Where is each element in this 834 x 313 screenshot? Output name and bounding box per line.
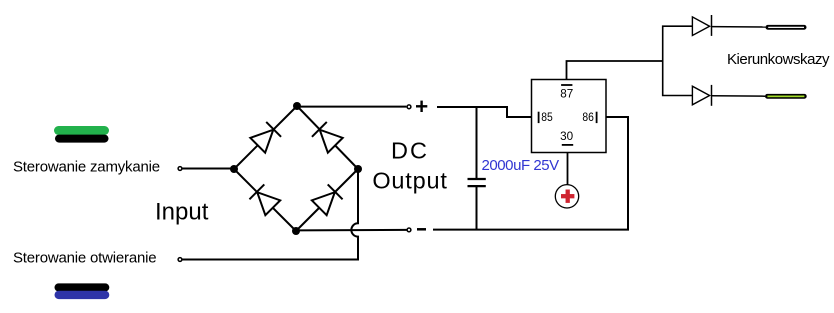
minus sign label <box>417 228 426 231</box>
svg-text:87: 87 <box>560 89 573 101</box>
connector bar black (closing pair) <box>55 135 109 143</box>
diode D3 (bridge bottom-left, pointing to left node) <box>249 184 280 215</box>
wire bottom node to minus terminal <box>296 229 407 232</box>
lamp connector bottom (yellow-green stripe) <box>765 94 807 99</box>
wire top node to plus terminal <box>297 106 406 108</box>
svg-text:30: 30 <box>560 131 573 143</box>
relay pin 30 mark <box>562 144 573 146</box>
plus sign label <box>416 101 427 112</box>
node top (junction dot) <box>293 102 301 110</box>
svg-text:Kierunkowskazy: Kierunkowskazy <box>727 51 830 68</box>
svg-text:Sterowanie zamykanie: Sterowanie zamykanie <box>13 159 160 176</box>
capacitor C1 plates <box>468 178 486 180</box>
terminal circle zamykanie <box>178 167 182 171</box>
svg-text:85: 85 <box>541 112 553 124</box>
wire bridge edge top-left <box>234 106 297 169</box>
relay pin 85 mark <box>538 112 540 123</box>
svg-text:86: 86 <box>582 112 594 124</box>
svg-text:DC: DC <box>391 138 429 164</box>
relay U1 box <box>532 80 607 153</box>
connector bar blue (opening pair) <box>55 291 110 299</box>
wire bridge edge bottom-left <box>234 169 296 231</box>
battery plus symbol <box>555 185 578 208</box>
capacitor C1 bottom lead <box>476 186 478 230</box>
wire relay pin 30 to battery <box>567 153 569 185</box>
node right (junction dot) <box>354 165 362 173</box>
svg-text:Input: Input <box>155 199 209 226</box>
diode D6 (bottom signal diode) <box>692 85 765 106</box>
wire plus rail to relay pin 85 <box>437 107 532 117</box>
wire zamykanie to bridge left node <box>182 168 234 170</box>
wire relay pin 86 down to minus rail <box>433 117 628 230</box>
node left (junction dot) <box>230 165 238 173</box>
diode D2 (bridge top-right, pointing to + node) <box>312 122 343 153</box>
connector bar black (opening pair) <box>55 283 110 291</box>
terminal circle minus output <box>407 228 411 232</box>
wire bridge edge top-right <box>297 106 358 169</box>
svg-text:Output: Output <box>372 168 447 194</box>
relay pin 86 mark <box>596 112 598 123</box>
terminal circle otwieranie <box>178 258 182 262</box>
terminal circle plus output <box>407 105 411 109</box>
wire relay pin 87 to branch <box>567 61 663 80</box>
lamp connector top (white stripe) <box>766 25 807 30</box>
wire bridge edge bottom-right <box>296 169 358 231</box>
diode D4 (bridge bottom-right, pointing to right node) <box>312 184 343 215</box>
svg-text:2000uF 25V: 2000uF 25V <box>482 157 560 174</box>
wire right node down with hop over minus rail <box>182 169 358 260</box>
connector bar green (closing pair) <box>54 126 109 135</box>
svg-text:Sterowanie otwieranie: Sterowanie otwieranie <box>13 250 156 267</box>
wire branch to signal diodes <box>663 26 693 95</box>
diode D1 (bridge top-left, pointing to + node) <box>250 122 281 153</box>
node bottom (junction dot) <box>292 227 300 235</box>
capacitor C1 top lead <box>476 107 478 178</box>
relay pin 87 mark <box>561 84 572 86</box>
diode D5 (top signal diode) <box>692 15 765 36</box>
